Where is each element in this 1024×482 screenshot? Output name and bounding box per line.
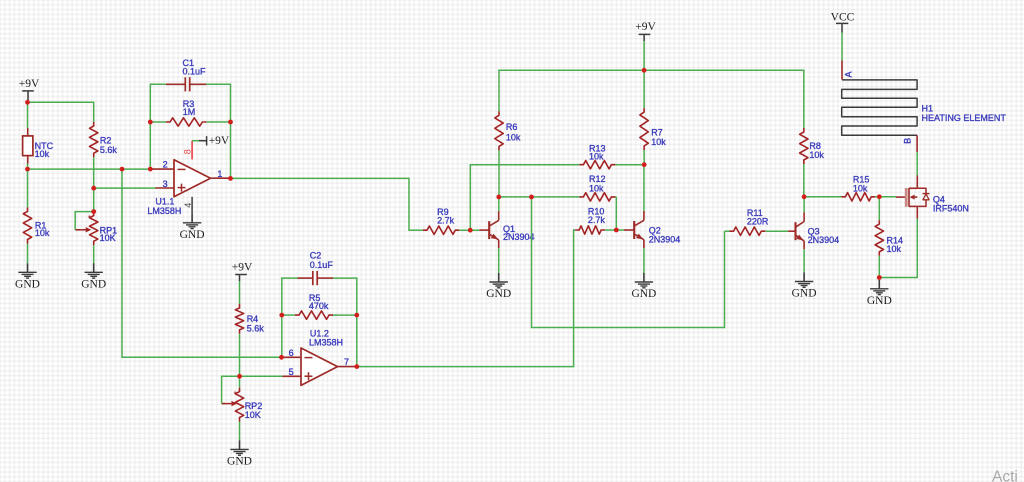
resistor R14 10k	[875, 197, 903, 278]
resistor R11 220R	[730, 208, 789, 235]
resistor R5 470k	[282, 293, 357, 319]
svg-text:2.7k: 2.7k	[437, 215, 455, 225]
svg-text:10K: 10K	[245, 410, 261, 420]
resistor R7 10k	[640, 70, 666, 166]
resistor R3 1M	[150, 99, 230, 126]
node U1.2 output	[0, 0, 1, 1]
svg-text:10k: 10k	[35, 149, 50, 159]
svg-text:+9V: +9V	[635, 21, 656, 33]
transistor Q1 2N3904	[479, 211, 534, 248]
ground R1	[15, 263, 40, 290]
svg-text:6: 6	[289, 348, 294, 358]
svg-text:10k: 10k	[506, 132, 521, 142]
wire R15 row	[804, 196, 841, 198]
power VCC	[831, 12, 855, 33]
transistor Q2 2N3904	[624, 211, 680, 248]
node U1.1 output	[0, 0, 1, 1]
node +9V/NTC/R2 junction	[0, 0, 1, 1]
wire VCC to heater pin A	[841, 33, 843, 61]
svg-text:10K: 10K	[100, 233, 116, 243]
junction dots layer	[25, 68, 882, 379]
ground RP2	[227, 440, 252, 467]
svg-text:GND: GND	[631, 288, 656, 300]
svg-text:220R: 220R	[747, 217, 769, 227]
svg-text:2.7k: 2.7k	[588, 215, 606, 225]
resistor R6 10k	[495, 70, 521, 198]
wire Q4 source to ground net	[879, 219, 918, 278]
wire R9 to Q1 base	[459, 229, 479, 231]
potentiometer RP1 10K	[75, 188, 117, 264]
ground Q1	[486, 273, 511, 300]
svg-text:B: B	[903, 138, 913, 144]
node R5 right	[0, 0, 1, 1]
svg-text:VCC: VCC	[831, 12, 855, 24]
node R11 tap	[0, 0, 1, 1]
node Q2 base	[0, 0, 1, 1]
svg-text:LM358H: LM358H	[309, 337, 343, 347]
resistor R9 2.7k	[423, 207, 459, 234]
svg-text:8: 8	[183, 149, 193, 154]
node R5 left	[0, 0, 1, 1]
resistor R12 10k	[579, 174, 616, 230]
svg-text:2N3904: 2N3904	[808, 235, 840, 245]
resistor R13 10k	[579, 143, 644, 169]
wire inverting input row	[28, 168, 153, 170]
node R4/RP2/pin5	[0, 0, 1, 1]
svg-text:2: 2	[163, 160, 168, 170]
resistor R4 5.6k	[235, 281, 264, 376]
svg-text:*: *	[88, 213, 91, 222]
svg-text:GND: GND	[486, 288, 511, 300]
svg-text:4: 4	[183, 203, 193, 208]
wire to U1.2 pin6 (long vertical)	[121, 168, 281, 357]
svg-text:GND: GND	[867, 295, 892, 307]
svg-text:0.1uF: 0.1uF	[183, 67, 207, 77]
node RP1 top	[0, 0, 1, 1]
op-amp U1.2 LM358H	[282, 329, 355, 386]
svg-text:GND: GND	[180, 229, 205, 241]
svg-text:7: 7	[344, 357, 349, 367]
wire C1 right branch	[206, 84, 230, 179]
ground Q3	[792, 273, 817, 300]
wire Q1 collector node	[498, 197, 500, 211]
node gate/R14 junction	[0, 0, 1, 1]
wire C1/R3 left branch	[150, 84, 166, 169]
watermark	[992, 469, 1018, 482]
wire Q2 collector	[643, 165, 645, 211]
wire Q3 collector	[803, 197, 805, 213]
ground RP1	[81, 263, 106, 290]
resistor R1 10k	[23, 168, 50, 263]
power +9V supply (R4)	[232, 261, 253, 281]
capacitor C1 0.1uF	[166, 58, 206, 92]
svg-text:U1.1: U1.1	[155, 196, 174, 206]
svg-text:470k: 470k	[309, 301, 329, 311]
wire Q1 emitter to ground	[498, 248, 500, 273]
svg-text:R6: R6	[506, 122, 518, 132]
node feedback tap	[0, 0, 1, 1]
op-amp U1.1 LM358H	[147, 160, 228, 216]
resistor R15 10k	[841, 175, 880, 201]
svg-text:HEATING ELEMENT: HEATING ELEMENT	[922, 113, 1007, 123]
power +9V (pin 8)	[192, 135, 230, 147]
wire +9V to NTC/R2 node	[27, 101, 94, 128]
svg-text:+9V: +9V	[209, 135, 230, 147]
svg-text:+9V: +9V	[232, 261, 253, 273]
svg-text:10k: 10k	[589, 152, 604, 162]
ground U1.1 pin4	[180, 214, 205, 241]
node pin2 junction	[0, 0, 1, 1]
node NTC/R1 junction	[0, 0, 1, 1]
wire Q1 base to R13 row	[470, 165, 580, 231]
ground R14	[867, 280, 892, 307]
wire R12 row	[499, 196, 580, 198]
node R3 right	[0, 0, 1, 1]
svg-text:2N3904: 2N3904	[649, 234, 681, 244]
node R3 left	[0, 0, 1, 1]
node Q1 collector	[0, 0, 1, 1]
svg-text:IRF540N: IRF540N	[933, 203, 969, 213]
wire R2 to RP1 node	[93, 157, 95, 188]
svg-text:5.6k: 5.6k	[100, 145, 118, 155]
transistor Q3 2N3904	[788, 212, 839, 249]
svg-text:GND: GND	[227, 456, 252, 468]
wire U1.2 output to R10	[357, 229, 574, 367]
svg-text:H1: H1	[922, 104, 934, 114]
svg-text:10k: 10k	[853, 183, 868, 193]
mosfet Q4 IRF540N	[896, 176, 969, 219]
potentiometer RP2 10K	[222, 376, 263, 441]
wire Q2 emitter to ground	[643, 248, 645, 273]
ground Q2	[631, 273, 656, 300]
wire R5 branches to pins	[282, 314, 357, 366]
capacitor C2 0.1uF	[282, 251, 357, 316]
power rail +9V top	[498, 69, 804, 71]
pin 8 power pin	[183, 141, 193, 160]
heating element H1 pin B	[903, 135, 918, 152]
svg-text:GND: GND	[792, 288, 817, 300]
wire gate	[879, 196, 896, 198]
power +9V supply (left)	[19, 78, 40, 101]
svg-text:1: 1	[217, 169, 222, 179]
heating element H1	[842, 80, 1007, 135]
svg-text:5: 5	[289, 367, 294, 377]
svg-text:GND: GND	[81, 279, 106, 291]
svg-text:10k: 10k	[809, 150, 824, 160]
svg-text:2N3904: 2N3904	[503, 232, 535, 242]
svg-text:10k: 10k	[887, 244, 902, 254]
power +9V supply (top middle)	[635, 21, 656, 71]
wire pin5 row	[240, 375, 283, 377]
thermistor NTC 10k	[23, 128, 54, 164]
svg-text:A: A	[844, 71, 854, 77]
svg-text:3: 3	[163, 179, 168, 189]
svg-text:*: *	[234, 389, 237, 398]
svg-text:1M: 1M	[183, 107, 196, 117]
wire NTC to node	[27, 164, 29, 170]
node Q3 collector	[0, 0, 1, 1]
node U1.2 pin6	[0, 0, 1, 1]
svg-text:10k: 10k	[589, 183, 604, 193]
svg-text:GND: GND	[15, 279, 40, 291]
pin 4 ground pin	[183, 197, 193, 214]
resistor R10 2.7k	[574, 207, 624, 235]
node R14/source/ground	[0, 0, 1, 1]
node Q2 collector	[0, 0, 1, 1]
svg-text:Acti: Acti	[992, 469, 1018, 482]
wire R11 tap to R11 (routing)	[531, 197, 730, 328]
resistor R2 5.6k	[90, 122, 118, 157]
svg-text:5.6k: 5.6k	[247, 324, 265, 334]
svg-text:10k: 10k	[35, 228, 50, 238]
wire Q3 emitter to ground	[803, 249, 805, 272]
svg-text:+9V: +9V	[19, 78, 40, 90]
node Q1 base	[0, 0, 1, 1]
node RP1 net	[0, 0, 1, 1]
wire RP1 node to U1.1 pin3	[94, 187, 156, 189]
wire output to R9	[230, 178, 423, 231]
wire heater to Q4 drain	[916, 152, 918, 176]
svg-text:LM358H: LM358H	[147, 206, 181, 216]
svg-text:0.1uF: 0.1uF	[310, 260, 334, 270]
svg-text:10k: 10k	[651, 137, 666, 147]
node +9V rail junction	[0, 0, 1, 1]
resistor R8 10k	[800, 70, 825, 198]
heating element H1 pin A	[842, 61, 854, 80]
